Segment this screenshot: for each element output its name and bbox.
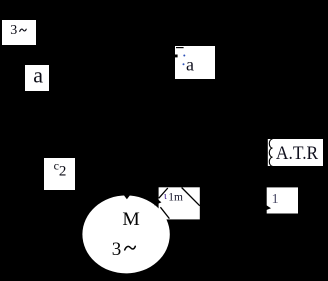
svg-text:2: 2 (59, 164, 67, 180)
arrowhead of i1m pointing to motor (154, 198, 161, 206)
current label İa (phasor current of phase a) (175, 46, 215, 79)
A.T.R winding arc 1 (269, 139, 272, 148)
autotransformer regulator A.T.R (268, 139, 323, 166)
svg-text:M: M (122, 209, 139, 230)
svg-text:a: a (186, 55, 194, 75)
svg-text:a: a (33, 62, 43, 87)
svg-text:1m: 1m (168, 191, 183, 203)
wire arrowhead entering i1 label from left (265, 204, 272, 211)
svg-text:3: 3 (10, 23, 17, 38)
svg-text:3: 3 (112, 239, 122, 260)
node label a (phase a terminal) (25, 62, 49, 91)
current label i1m (magnetizing current) with arrow to motor (159, 187, 200, 219)
wire segment into i1m arrow (159, 188, 168, 198)
wire arrowhead entering motor at top (123, 194, 130, 199)
wire segment along motor edge (below arrow) (160, 207, 169, 218)
A.T.R winding arc 3 (269, 157, 272, 166)
svg-text:1: 1 (272, 192, 279, 207)
current label i1 (line current) (267, 187, 298, 213)
motor M1 body (induction motor circle) (82, 195, 169, 273)
label box: three-phase supply 3~ (2, 20, 36, 45)
label c2 (switch/contact c2) (44, 158, 75, 190)
wire segment from A.T.R crossing i1m box (182, 188, 200, 206)
svg-text:A.T.R: A.T.R (276, 144, 319, 164)
A.T.R winding arc 2 (269, 148, 272, 157)
